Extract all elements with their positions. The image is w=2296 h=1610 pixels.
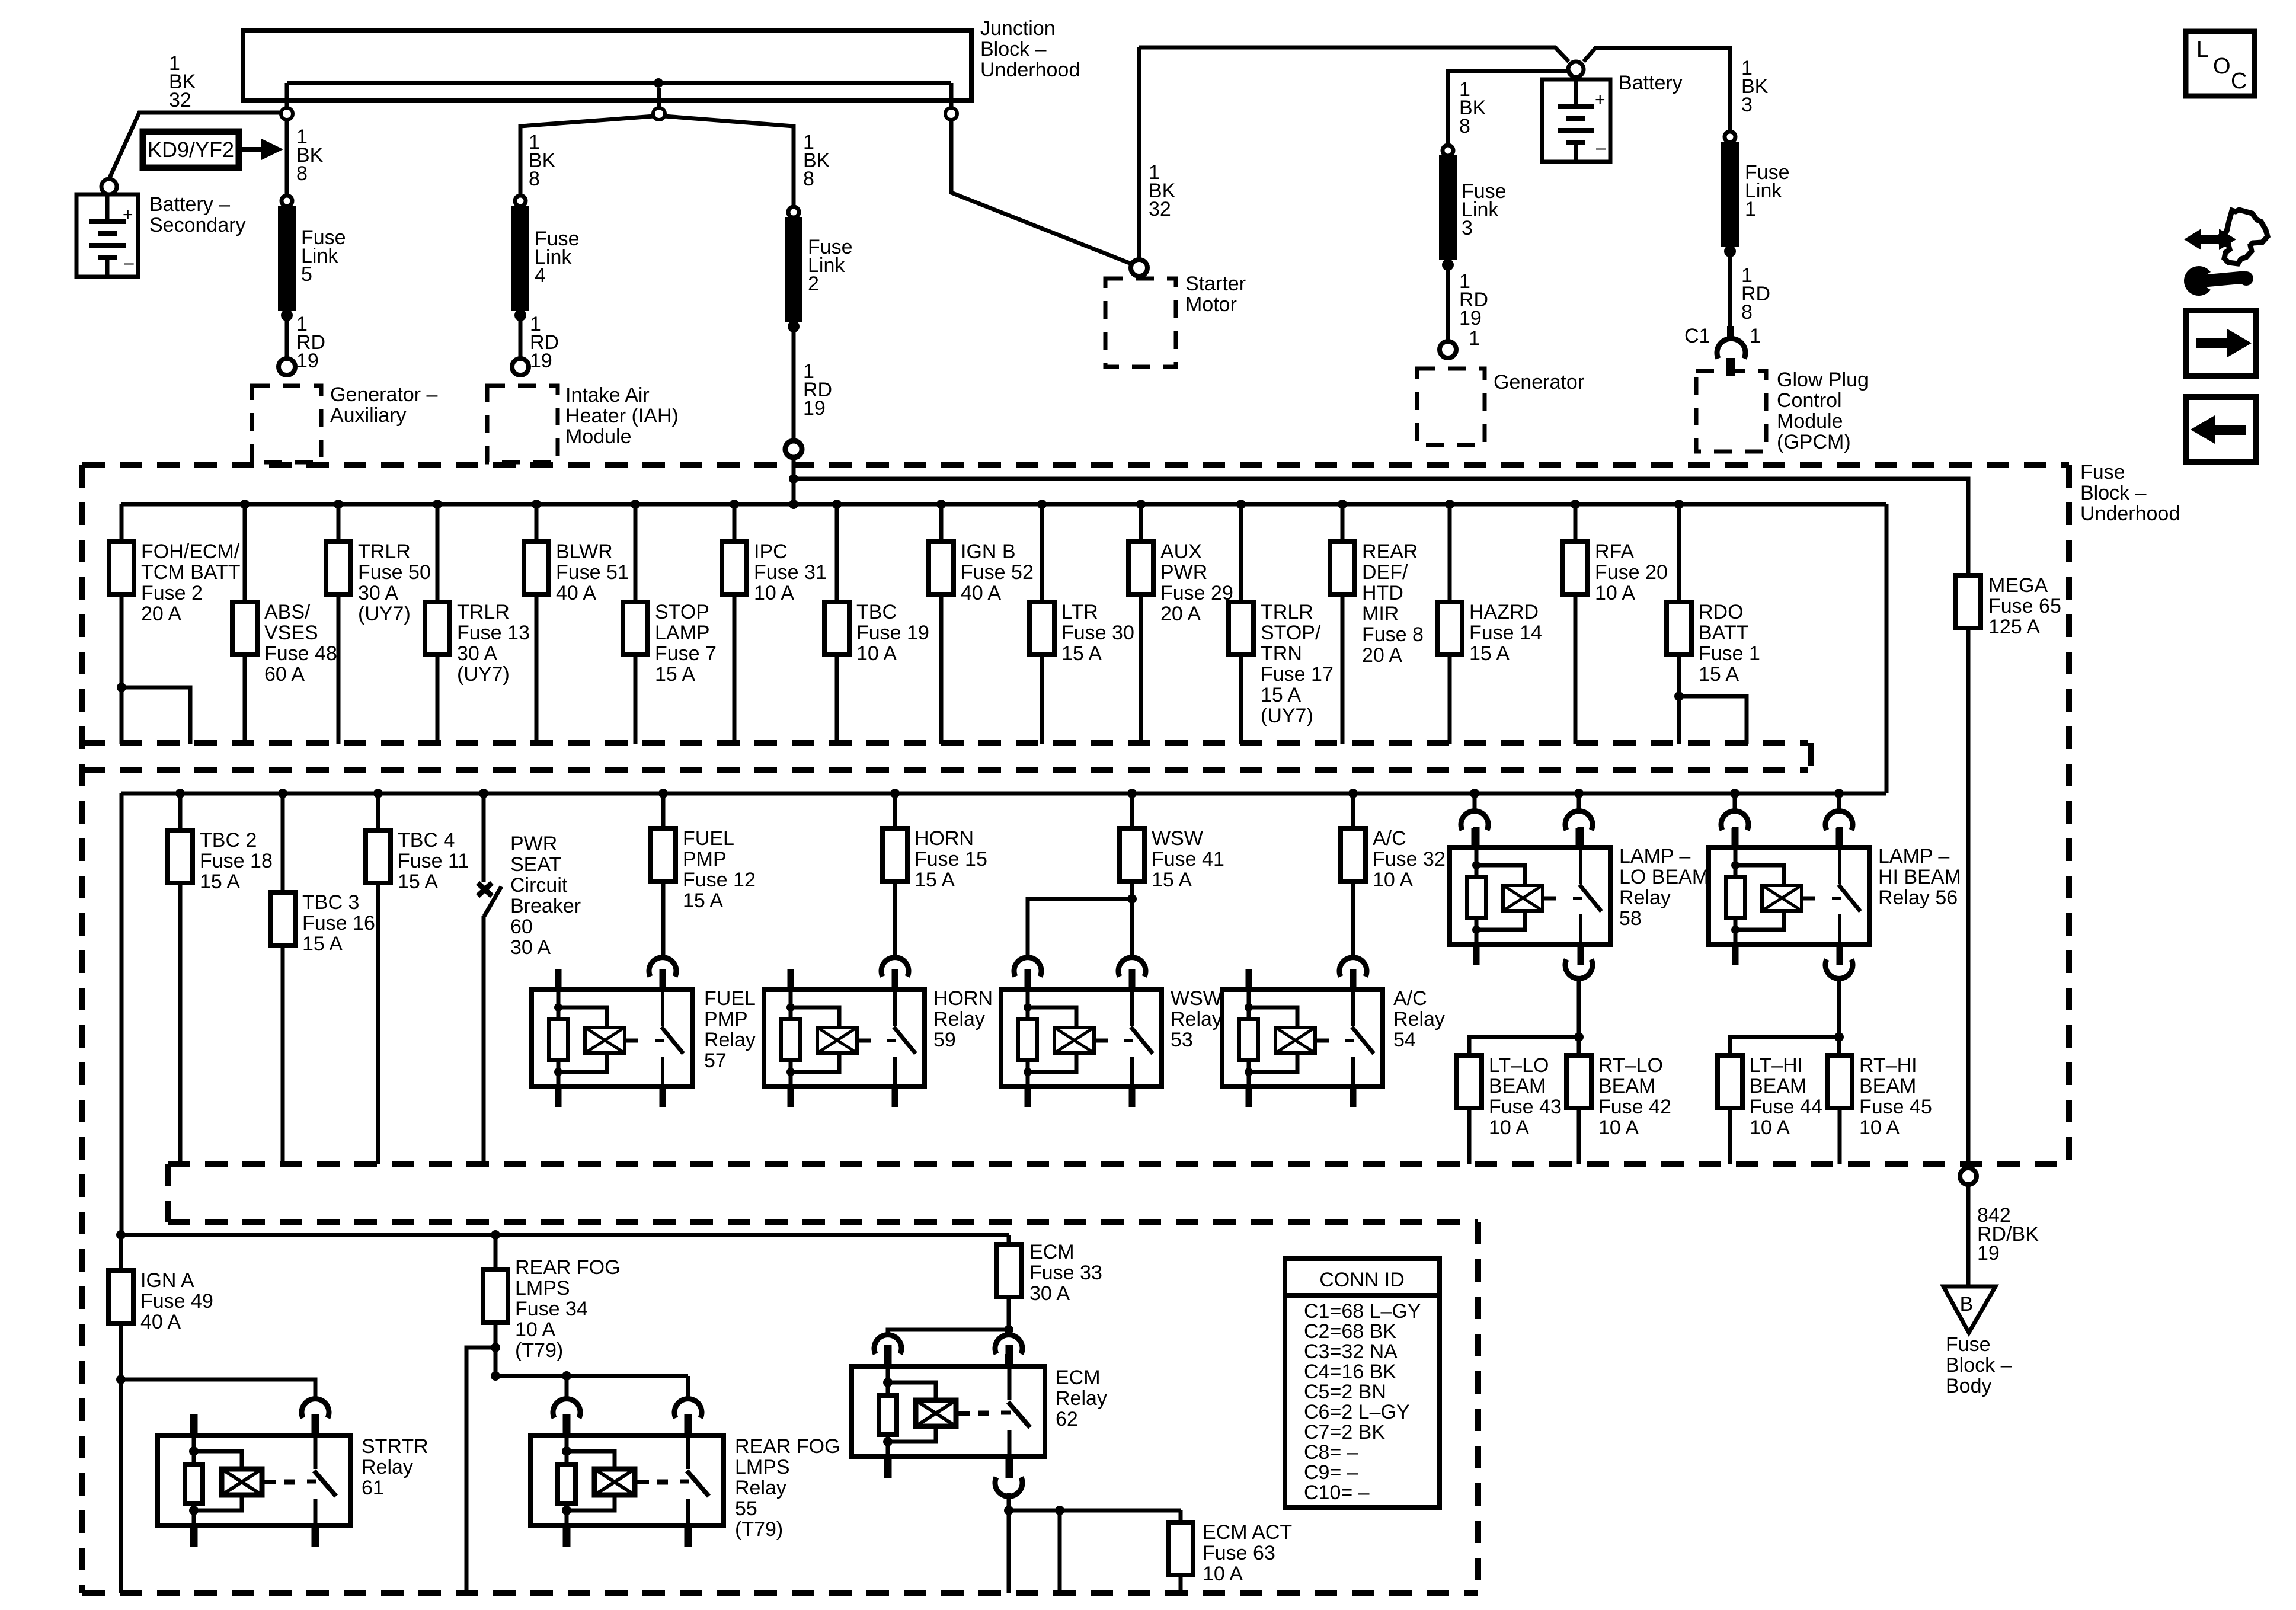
svg-text:10 A: 10 A bbox=[1859, 1116, 1900, 1139]
svg-text:30 A: 30 A bbox=[457, 642, 497, 665]
svg-text:C: C bbox=[2231, 69, 2247, 94]
connector ring - battery secondary bbox=[101, 179, 117, 194]
label relay 62 bbox=[1056, 1366, 1107, 1430]
svg-text:Fuse 7: Fuse 7 bbox=[655, 642, 717, 665]
wire - feed to MEGA fuse bbox=[794, 479, 1968, 575]
svg-text:BLWR: BLWR bbox=[556, 540, 613, 563]
connector C1 - GPCM bbox=[1717, 326, 1745, 376]
label relay 59 bbox=[933, 987, 993, 1051]
svg-text:–: – bbox=[124, 253, 134, 273]
label wire 1 BK 8 (fuse link 2) bbox=[803, 131, 830, 190]
svg-text:C10= –: C10= – bbox=[1304, 1481, 1370, 1504]
svg-text:Fuse 50: Fuse 50 bbox=[358, 561, 431, 584]
svg-text:(T79): (T79) bbox=[515, 1339, 563, 1362]
svg-text:LTR: LTR bbox=[1061, 601, 1098, 623]
component box - Glow Plug Control Module bbox=[1696, 369, 1869, 453]
component box - Generator Auxiliary bbox=[252, 383, 438, 462]
svg-text:19: 19 bbox=[1977, 1242, 2000, 1265]
svg-text:Fuse 49: Fuse 49 bbox=[140, 1290, 213, 1313]
svg-text:TBC: TBC bbox=[856, 601, 897, 623]
connector ring - IAH module bbox=[512, 359, 529, 375]
label relay 56 bbox=[1878, 845, 1961, 909]
svg-text:HORN: HORN bbox=[933, 987, 993, 1010]
svg-text:Fuse 43: Fuse 43 bbox=[1489, 1096, 1562, 1118]
svg-text:Fuse: Fuse bbox=[1946, 1333, 1991, 1356]
wire - rear fog relay coil drop bbox=[565, 1376, 569, 1401]
svg-text:60 A: 60 A bbox=[264, 663, 305, 686]
label wire 842 RD/BK 19 bbox=[1977, 1204, 2039, 1265]
svg-text:59: 59 bbox=[933, 1029, 956, 1051]
svg-text:C1: C1 bbox=[1684, 325, 1710, 347]
svg-text:Fuse 11: Fuse 11 bbox=[398, 850, 469, 872]
svg-text:60: 60 bbox=[510, 916, 533, 938]
fuse 33 ECM 30A bbox=[996, 1235, 1102, 1330]
wire - ECM relay output node bbox=[1004, 1493, 1013, 1515]
svg-text:2: 2 bbox=[808, 273, 819, 295]
fuse 30 LTR 15A bbox=[1029, 500, 1134, 744]
svg-text:RDO: RDO bbox=[1699, 601, 1744, 623]
svg-text:STRTR: STRTR bbox=[362, 1435, 428, 1458]
connector - lamp-lo relay output bbox=[1565, 959, 1593, 978]
svg-text:C3=32 NA: C3=32 NA bbox=[1304, 1340, 1398, 1363]
bus - high beam fuses bbox=[1730, 1032, 1844, 1055]
svg-text:C9= –: C9= – bbox=[1304, 1461, 1358, 1484]
fuse 49 IGN A 40A bbox=[108, 1235, 213, 1593]
svg-text:Auxiliary: Auxiliary bbox=[330, 404, 406, 427]
svg-text:VSES: VSES bbox=[264, 622, 318, 644]
svg-text:5: 5 bbox=[301, 263, 312, 286]
connector ring - battery positive bbox=[1568, 62, 1584, 77]
svg-text:55: 55 bbox=[735, 1497, 757, 1520]
svg-text:Relay: Relay bbox=[1619, 886, 1671, 909]
relay 59 HORN bbox=[764, 969, 925, 1107]
connector ring - fuse block underhood feed bbox=[785, 441, 802, 457]
svg-text:Fuse 42: Fuse 42 bbox=[1598, 1096, 1671, 1118]
wire - junction block to Battery Secondary bbox=[109, 113, 280, 179]
svg-text:PMP: PMP bbox=[683, 848, 727, 870]
wire - to starter relay switch bbox=[121, 1379, 315, 1401]
svg-text:Fuse 52: Fuse 52 bbox=[961, 561, 1034, 584]
svg-text:Relay: Relay bbox=[1171, 1008, 1222, 1030]
node on junction block bus bbox=[654, 78, 663, 107]
svg-text:Relay: Relay bbox=[362, 1456, 413, 1478]
svg-text:15 A: 15 A bbox=[683, 889, 723, 912]
svg-text:TBC 4: TBC 4 bbox=[398, 829, 455, 852]
svg-text:FUEL: FUEL bbox=[704, 987, 756, 1010]
wire - fuse link 4 to IAH module bbox=[519, 320, 523, 358]
svg-text:Module: Module bbox=[565, 425, 632, 448]
label wire 1 RD 19 (fuse block feed) bbox=[803, 360, 832, 420]
svg-text:Module: Module bbox=[1777, 410, 1843, 433]
svg-text:ECM: ECM bbox=[1056, 1366, 1101, 1389]
fuse 2 FOH/ECM/TCM BATT 20A bbox=[109, 504, 240, 744]
svg-text:Underhood: Underhood bbox=[2080, 502, 2180, 525]
label wire 1 RD 19 (gen aux) bbox=[296, 313, 325, 372]
boundary - relay section top edge bbox=[82, 767, 1808, 773]
svg-text:10 A: 10 A bbox=[1373, 869, 1413, 891]
svg-text:Fuse 51: Fuse 51 bbox=[556, 561, 629, 584]
relay 55 REAR FOG LMPS bbox=[530, 1414, 724, 1547]
wire - junction block to fuse link 2 bbox=[664, 116, 794, 207]
wire - rear fog relay switch drop bbox=[686, 1376, 690, 1401]
svg-text:10 A: 10 A bbox=[1489, 1116, 1529, 1139]
connector - ECM relay output bbox=[995, 1477, 1022, 1496]
svg-text:WSW: WSW bbox=[1152, 827, 1203, 850]
svg-text:DEF/: DEF/ bbox=[1362, 561, 1408, 584]
fuse 1 RDO BATT 15A bbox=[1667, 500, 1760, 744]
fuse link 5 bbox=[278, 196, 346, 321]
svg-text:BATT: BATT bbox=[1699, 622, 1748, 644]
svg-text:LAMP –: LAMP – bbox=[1878, 845, 1949, 868]
svg-text:Fuse 31: Fuse 31 bbox=[754, 561, 827, 584]
connector ring - generator auxiliary bbox=[279, 359, 295, 375]
connector - lamp-hi relay output bbox=[1825, 959, 1853, 978]
svg-text:20 A: 20 A bbox=[1160, 603, 1201, 625]
node - IGN A branch to starter relay bbox=[116, 1375, 126, 1384]
connector - rear fog relay switch pin bbox=[674, 1399, 702, 1433]
off-page connector B - Fuse Block Body bbox=[1943, 1286, 2012, 1397]
fuse link 3 bbox=[1439, 145, 1507, 271]
svg-text:FUEL: FUEL bbox=[683, 827, 734, 850]
wire - fuse 15 to horn relay bbox=[893, 881, 897, 958]
svg-text:STOP/: STOP/ bbox=[1261, 622, 1321, 644]
svg-text:C7=2 BK: C7=2 BK bbox=[1304, 1421, 1385, 1443]
svg-text:Fuse 13: Fuse 13 bbox=[457, 622, 530, 644]
relay 57 FUEL PMP bbox=[532, 969, 692, 1107]
svg-text:LAMP –: LAMP – bbox=[1619, 845, 1690, 868]
svg-text:Heater (IAH): Heater (IAH) bbox=[565, 405, 679, 427]
svg-text:Relay: Relay bbox=[1393, 1008, 1445, 1030]
svg-text:Block –: Block – bbox=[980, 38, 1047, 60]
svg-text:CONN ID: CONN ID bbox=[1319, 1269, 1405, 1291]
wire - left feed down to IGN A bbox=[120, 793, 124, 1235]
wire - branch to ECM relay coil bbox=[888, 1330, 1009, 1337]
fuse 32 A/C 10A bbox=[1341, 789, 1446, 891]
svg-text:10 A: 10 A bbox=[1595, 582, 1635, 604]
svg-text:15 A: 15 A bbox=[200, 870, 240, 893]
label wire 1 BK 8 (fuse link 5) bbox=[296, 126, 324, 185]
svg-text:15 A: 15 A bbox=[1061, 642, 1102, 665]
connector - lamp-hi relay coil pin bbox=[1721, 811, 1748, 845]
connector ring - junction block right bbox=[945, 108, 957, 120]
relay 61 STRTR bbox=[158, 1414, 351, 1547]
svg-text:Fuse 2: Fuse 2 bbox=[141, 582, 203, 604]
svg-text:10 A: 10 A bbox=[754, 582, 794, 604]
svg-text:ECM: ECM bbox=[1029, 1241, 1075, 1263]
connector - ECM relay coil pin bbox=[874, 1335, 901, 1364]
wire - lamp-lo relay to beam fuses bbox=[1577, 977, 1581, 1037]
svg-text:RT–HI: RT–HI bbox=[1859, 1054, 1917, 1077]
fuse 44 LT-HI BEAM 10A bbox=[1718, 1054, 1822, 1164]
svg-text:57: 57 bbox=[704, 1049, 727, 1072]
connector - lamp-hi relay switch pin bbox=[1825, 811, 1853, 845]
table - CONN ID bbox=[1285, 1259, 1440, 1507]
svg-text:10 A: 10 A bbox=[1750, 1116, 1790, 1139]
svg-text:62: 62 bbox=[1056, 1408, 1078, 1430]
fuse 63 ECM ACT 10A bbox=[1168, 1510, 1292, 1593]
svg-text:PWR: PWR bbox=[1160, 561, 1207, 584]
svg-text:20 A: 20 A bbox=[141, 603, 181, 625]
svg-text:Relay: Relay bbox=[735, 1477, 786, 1499]
svg-text:Block –: Block – bbox=[2080, 482, 2147, 504]
svg-text:Fuse 41: Fuse 41 bbox=[1152, 848, 1224, 870]
icon box - arrow right bbox=[2186, 311, 2256, 376]
component box - Starter Motor bbox=[1105, 273, 1246, 367]
svg-text:LT–HI: LT–HI bbox=[1750, 1054, 1803, 1077]
fuse 8 REAR DEF/HTD MIR 20A bbox=[1330, 500, 1424, 744]
svg-text:20 A: 20 A bbox=[1362, 644, 1402, 667]
wire - bus to lamp-hi relay switch bbox=[1834, 789, 1844, 812]
fuse link 4 bbox=[511, 196, 580, 321]
svg-text:LMPS: LMPS bbox=[515, 1277, 570, 1299]
fuse 42 RT-LO BEAM 10A bbox=[1566, 1037, 1671, 1164]
icon box LOC bbox=[2186, 31, 2255, 96]
svg-text:IGN B: IGN B bbox=[961, 540, 1016, 563]
label relay 53 bbox=[1171, 987, 1222, 1051]
svg-text:Control: Control bbox=[1777, 389, 1842, 412]
svg-text:LMPS: LMPS bbox=[735, 1456, 790, 1478]
svg-text:RT–LO: RT–LO bbox=[1598, 1054, 1663, 1077]
wire - junction block to fuse link 4 bbox=[520, 116, 654, 196]
wire - fuse link 3 to generator bbox=[1446, 270, 1450, 341]
svg-text:REAR FOG: REAR FOG bbox=[735, 1435, 840, 1458]
label wire 1 BK 8 (fuse link 3) bbox=[1459, 78, 1486, 137]
label connector C1 pin 1 bbox=[1684, 325, 1761, 347]
wire - bus to lamp-lo relay switch bbox=[1574, 789, 1584, 812]
svg-text:(T79): (T79) bbox=[735, 1518, 783, 1541]
svg-text:15 A: 15 A bbox=[1261, 684, 1301, 706]
connector - fuel pump relay switch pin bbox=[649, 958, 676, 990]
svg-text:(UY7): (UY7) bbox=[358, 603, 411, 625]
relay 54 A/C bbox=[1222, 969, 1383, 1107]
boundary - fuse block underhood top edge bbox=[82, 462, 2069, 468]
svg-text:30 A: 30 A bbox=[510, 936, 551, 959]
svg-text:58: 58 bbox=[1619, 907, 1642, 930]
svg-text:15 A: 15 A bbox=[655, 663, 695, 686]
svg-text:HORN: HORN bbox=[914, 827, 974, 850]
svg-text:(GPCM): (GPCM) bbox=[1777, 431, 1851, 453]
circuit breaker 60 PWR SEAT 30A bbox=[478, 789, 581, 1164]
svg-text:TBC 2: TBC 2 bbox=[200, 829, 257, 852]
svg-text:C6=2 L–GY: C6=2 L–GY bbox=[1304, 1401, 1410, 1423]
svg-text:Fuse 16: Fuse 16 bbox=[302, 912, 375, 934]
svg-text:LO BEAM: LO BEAM bbox=[1619, 866, 1709, 888]
fuse 65 MEGA 125A bbox=[1956, 574, 2061, 1169]
svg-text:RFA: RFA bbox=[1595, 540, 1634, 563]
svg-text:Motor: Motor bbox=[1185, 293, 1237, 316]
wire - starter motor drop bbox=[1137, 47, 1141, 260]
wire - feed to rear fog relay bbox=[495, 1371, 688, 1381]
svg-text:15 A: 15 A bbox=[398, 870, 438, 893]
svg-text:10 A: 10 A bbox=[1203, 1563, 1243, 1585]
wire - bus to lamp-lo relay coil bbox=[1470, 789, 1479, 812]
wire - bus to lamp-hi relay coil bbox=[1730, 789, 1739, 812]
wire - fuse link 5 to generator auxiliary bbox=[285, 320, 289, 358]
svg-text:10 A: 10 A bbox=[856, 642, 897, 665]
svg-text:125 A: 125 A bbox=[1988, 616, 2040, 638]
node - fuse link 2 joins bus bbox=[789, 474, 798, 509]
svg-text:19: 19 bbox=[530, 350, 552, 372]
label relay 57 bbox=[704, 987, 756, 1072]
svg-text:10 A: 10 A bbox=[1598, 1116, 1639, 1139]
fuse 50 TRLR 30A bbox=[326, 500, 431, 744]
connector ring - junction block center bbox=[653, 108, 665, 120]
svg-text:PWR: PWR bbox=[510, 833, 557, 855]
svg-text:LT–LO: LT–LO bbox=[1489, 1054, 1549, 1077]
fuse 52 IGN B 40A bbox=[929, 500, 1034, 744]
svg-text:Generator: Generator bbox=[1494, 371, 1584, 393]
node - fuse 33 output bbox=[1004, 1325, 1013, 1334]
wire - 842 RD/BK to fuse block body bbox=[1966, 1184, 1971, 1286]
svg-text:FOH/ECM/: FOH/ECM/ bbox=[141, 540, 240, 563]
svg-text:1: 1 bbox=[1745, 198, 1756, 220]
svg-text:Battery: Battery bbox=[1619, 72, 1683, 94]
svg-text:O: O bbox=[2213, 54, 2231, 79]
connector - WSW relay switch pin bbox=[1118, 958, 1146, 990]
relay 58 LAMP LO BEAM bbox=[1450, 827, 1610, 965]
svg-text:BEAM: BEAM bbox=[1859, 1075, 1916, 1097]
bus - bottom section feed bbox=[116, 1230, 1009, 1240]
bus - relay section feed bbox=[121, 792, 1886, 796]
relay 53 WSW bbox=[1001, 969, 1162, 1107]
svg-text:15 A: 15 A bbox=[1699, 663, 1739, 686]
wire - fuse 32 to A/C relay bbox=[1351, 881, 1355, 958]
wire - ECM output to body right bbox=[1058, 1510, 1062, 1593]
node - fuse 34 output bbox=[491, 1343, 500, 1352]
svg-text:Relay: Relay bbox=[933, 1008, 985, 1030]
svg-text:TBC 3: TBC 3 bbox=[302, 891, 359, 914]
label wire 1 RD 19 (IAH) bbox=[530, 313, 559, 372]
wire - fuse 41 to WSW relay switch bbox=[1130, 899, 1134, 958]
battery G2 - Battery Secondary bbox=[76, 193, 246, 277]
connector ring - junction block left bbox=[281, 108, 293, 120]
svg-text:KD9/YF2: KD9/YF2 bbox=[148, 137, 234, 162]
wire - to ECM relay switch bbox=[1007, 1330, 1011, 1337]
svg-text:61: 61 bbox=[362, 1477, 384, 1499]
svg-text:8: 8 bbox=[1459, 115, 1470, 137]
connector - lamp-lo relay switch pin bbox=[1565, 811, 1593, 845]
svg-text:4: 4 bbox=[535, 264, 546, 287]
junction block J1 - Junction Block Underhood bbox=[243, 17, 1080, 107]
svg-text:MEGA: MEGA bbox=[1988, 574, 2048, 597]
wire - branch to body bbox=[466, 1347, 495, 1593]
svg-text:IGN A: IGN A bbox=[140, 1269, 194, 1292]
label wire 1 BK 3 (fuse link 1) bbox=[1741, 57, 1769, 116]
svg-text:Generator –: Generator – bbox=[330, 383, 438, 406]
boundary - fuse row bottom edge bbox=[82, 740, 1808, 746]
relay 56 LAMP HI BEAM bbox=[1709, 827, 1869, 965]
svg-text:8: 8 bbox=[1741, 301, 1753, 324]
svg-text:+: + bbox=[123, 205, 133, 225]
connector - WSW relay coil pin bbox=[1014, 958, 1041, 990]
boundary - relay section bottom edge bbox=[168, 1161, 2069, 1167]
fuse 15 HORN 15A bbox=[882, 789, 987, 891]
fuse 41 WSW 15A bbox=[1120, 789, 1224, 891]
svg-text:8: 8 bbox=[803, 168, 814, 190]
svg-text:Fuse 17: Fuse 17 bbox=[1261, 663, 1334, 686]
svg-text:C1=68 L–GY: C1=68 L–GY bbox=[1304, 1300, 1421, 1323]
svg-text:Fuse: Fuse bbox=[2080, 461, 2125, 484]
svg-text:Fuse 44: Fuse 44 bbox=[1750, 1096, 1822, 1118]
svg-text:SEAT: SEAT bbox=[510, 853, 561, 876]
relay 62 ECM bbox=[852, 1345, 1045, 1478]
connector ring - generator bbox=[1440, 341, 1456, 358]
svg-text:19: 19 bbox=[1459, 307, 1482, 329]
connector - horn relay switch pin bbox=[881, 958, 909, 990]
connector - rear fog relay coil pin bbox=[553, 1399, 580, 1433]
svg-text:B: B bbox=[1960, 1293, 1974, 1315]
boundary - bottom section right edge bbox=[1475, 1222, 1481, 1593]
fuse 11 TBC4 15A bbox=[366, 789, 469, 1164]
svg-text:40 A: 40 A bbox=[140, 1311, 181, 1333]
svg-text:1: 1 bbox=[1750, 325, 1761, 347]
svg-text:HI BEAM: HI BEAM bbox=[1878, 866, 1961, 888]
svg-text:Fuse 8: Fuse 8 bbox=[1362, 623, 1424, 646]
svg-text:ABS/: ABS/ bbox=[264, 601, 311, 623]
svg-text:TRLR: TRLR bbox=[1261, 601, 1313, 623]
wire - fuse link 1 to GPCM bbox=[1728, 257, 1732, 329]
svg-text:HAZRD: HAZRD bbox=[1469, 601, 1539, 623]
svg-text:TRLR: TRLR bbox=[358, 540, 411, 563]
svg-text:54: 54 bbox=[1393, 1029, 1416, 1051]
fuse 19 TBC 10A bbox=[824, 500, 929, 744]
svg-text:(UY7): (UY7) bbox=[457, 663, 510, 686]
boundary - notch left bbox=[165, 1164, 171, 1222]
fuse link 1 bbox=[1721, 132, 1790, 257]
fuse 31 IPC 10A bbox=[722, 500, 827, 744]
svg-text:Relay: Relay bbox=[1056, 1387, 1107, 1410]
svg-text:Fuse 12: Fuse 12 bbox=[683, 869, 756, 891]
svg-text:1: 1 bbox=[1469, 327, 1480, 350]
svg-text:Fuse 19: Fuse 19 bbox=[856, 622, 929, 644]
svg-text:15 A: 15 A bbox=[302, 933, 343, 955]
fuse 34 REAR FOG LMPS 10A bbox=[483, 1230, 621, 1362]
svg-text:Fuse 14: Fuse 14 bbox=[1469, 622, 1542, 644]
svg-text:A/C: A/C bbox=[1373, 827, 1406, 850]
fuse 16 TBC3 15A bbox=[270, 789, 375, 1164]
connector - lamp-lo relay coil pin bbox=[1461, 811, 1488, 845]
wire - battery to fuse link 3 bbox=[1448, 71, 1572, 145]
svg-text:BEAM: BEAM bbox=[1598, 1075, 1655, 1097]
svg-text:Glow Plug: Glow Plug bbox=[1777, 369, 1869, 391]
svg-text:Fuse 30: Fuse 30 bbox=[1061, 622, 1134, 644]
svg-text:32: 32 bbox=[169, 89, 191, 111]
svg-text:IPC: IPC bbox=[754, 540, 788, 563]
label wire 1 BK 32 (starter) bbox=[1149, 161, 1176, 220]
svg-text:30 A: 30 A bbox=[358, 582, 398, 604]
svg-text:BEAM: BEAM bbox=[1750, 1075, 1806, 1097]
wire - fuse 12 to fuel pump relay bbox=[661, 881, 666, 958]
connector - ECM relay switch pin bbox=[995, 1335, 1022, 1364]
fuse 12 FUEL PMP 15A bbox=[651, 789, 756, 912]
icon - component view (outline, double arrow, wrench) bbox=[2184, 210, 2268, 296]
svg-text:19: 19 bbox=[803, 397, 826, 420]
wire - lamp-hi relay to beam fuses bbox=[1837, 977, 1841, 1037]
svg-text:Fuse 48: Fuse 48 bbox=[264, 642, 337, 665]
svg-text:TRLR: TRLR bbox=[457, 601, 510, 623]
wire - starter motor feed from junction block bbox=[951, 120, 1133, 264]
svg-text:AUX: AUX bbox=[1160, 540, 1202, 563]
fuse 43 LT-LO BEAM 10A bbox=[1457, 1054, 1562, 1164]
svg-text:Starter: Starter bbox=[1185, 273, 1246, 295]
svg-text:Fuse 65: Fuse 65 bbox=[1988, 595, 2061, 617]
fuse 48 ABS/VSES 60A bbox=[232, 500, 337, 744]
callout box KD9/YF2 bbox=[143, 132, 283, 168]
svg-text:Fuse 63: Fuse 63 bbox=[1203, 1542, 1275, 1564]
connector ring - starter motor bbox=[1131, 260, 1147, 276]
fuse 51 BLWR 40A bbox=[524, 500, 629, 744]
svg-text:15 A: 15 A bbox=[1152, 869, 1192, 891]
